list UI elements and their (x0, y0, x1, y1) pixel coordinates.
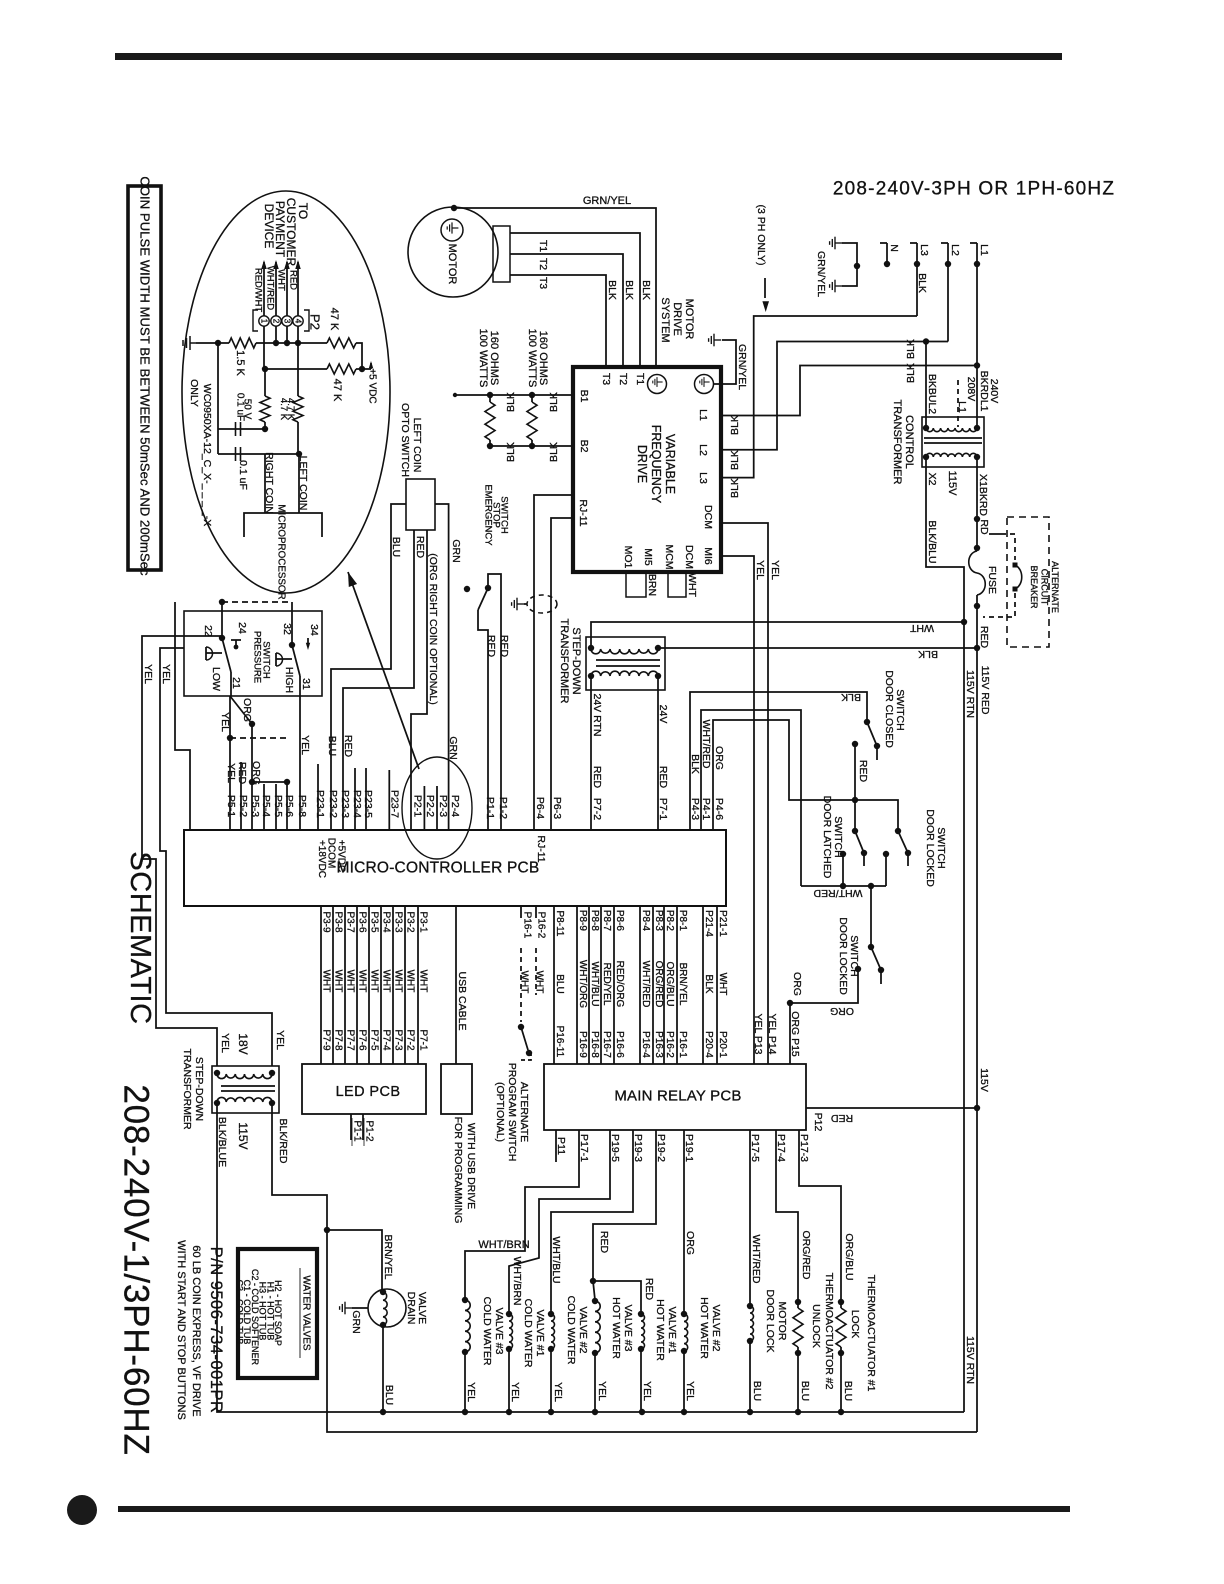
svg-text:P5-8: P5-8 (296, 795, 308, 817)
svg-text:RED/YEL: RED/YEL (601, 963, 612, 1006)
svg-text:P5-5: P5-5 (272, 795, 284, 817)
svg-text:TRANSFORMER: TRANSFORMER (891, 400, 903, 485)
door locked switch 1 blade (898, 831, 908, 853)
contact 32 (289, 642, 295, 648)
resistor 4.7 K left (260, 396, 270, 422)
wire BLU dlm (749, 1341, 751, 1412)
svg-text:GRN/YEL: GRN/YEL (583, 195, 631, 207)
junction brnyel (324, 1227, 330, 1233)
svg-text:FUSE: FUSE (986, 566, 998, 594)
svg-text:P23-2: P23-2 (327, 790, 339, 818)
breaker arc (1015, 565, 1022, 589)
motor ground terminal (441, 219, 463, 241)
svg-text:X1BKRD: X1BKRD (977, 474, 989, 516)
wire P3-3 to LED (392, 906, 394, 1064)
svg-text:HIGH: HIGH (283, 667, 295, 693)
USB drive box (441, 1064, 472, 1114)
junction RTN-BLK join (974, 645, 980, 651)
wire P8-4 to relay (639, 906, 641, 1064)
wire P8-2 to relay (663, 906, 665, 1064)
svg-text:+5 VDC: +5 VDC (367, 368, 378, 403)
T3 primary coil (217, 1074, 272, 1079)
wire P3-8 to LED (332, 906, 334, 1064)
svg-text:WHT: WHT (418, 970, 429, 993)
contact 22 (219, 635, 225, 641)
wire P2-1 down (263, 326, 265, 369)
svg-text:P8-8: P8-8 (589, 910, 600, 932)
svg-text:P3-6: P3-6 (357, 911, 368, 933)
P2 pin group ellipse (402, 757, 472, 859)
svg-text:YEL: YEL (225, 763, 237, 783)
svg-text:P1-2: P1-2 (497, 797, 509, 819)
svg-text:HOT WATER: HOT WATER (610, 1297, 622, 1359)
wire P2-4 down (297, 326, 299, 343)
terminal L2 (941, 242, 948, 244)
dashed spare (230, 737, 287, 739)
wire to door locked switch 1 (855, 800, 898, 831)
svg-text:47 K: 47 K (328, 308, 340, 331)
svg-text:BLK: BLK (505, 442, 517, 462)
junction WHT at RTN rail (961, 619, 967, 625)
svg-text:P19-5: P19-5 (609, 1134, 621, 1162)
junction return bus x465 (462, 1409, 468, 1415)
wire P8-3 to relay (652, 906, 654, 1064)
junction cap1 (262, 426, 268, 432)
junction dashed yel (227, 735, 233, 741)
control transformer primary coil (926, 428, 977, 432)
wire BLU th2 (797, 1353, 799, 1412)
svg-text:THERMOACTUATOR #2: THERMOACTUATOR #2 (823, 1273, 835, 1390)
wire YEL cw1 (508, 1349, 510, 1412)
chassis ground symbol (709, 334, 722, 347)
svg-text:VALVE #1: VALVE #1 (666, 1307, 678, 1354)
svg-text:P23-3: P23-3 (339, 790, 351, 818)
svg-text:CIRCUIT: CIRCUIT (1040, 569, 1050, 606)
svg-text:L2: L2 (697, 444, 709, 456)
svg-text:22: 22 (202, 625, 214, 637)
thermoactuator 1 resistor (838, 1299, 844, 1305)
svg-text:32: 32 (281, 623, 293, 635)
svg-text:VALVE #3: VALVE #3 (622, 1305, 634, 1352)
step-down transformer T2 box (586, 637, 665, 690)
terminal L1 (970, 242, 977, 244)
alternate circuit breaker box (1007, 517, 1049, 647)
svg-text:ONLY: ONLY (188, 379, 200, 407)
svg-text:DOOR LOCKED: DOOR LOCKED (837, 917, 849, 995)
wire P2-2 stub (423, 786, 425, 830)
junction return bus x551 (548, 1409, 554, 1415)
LED PCB box (302, 1064, 426, 1114)
svg-text:P5-3: P5-3 (249, 795, 261, 817)
wire P6-4 (534, 495, 573, 830)
svg-text:WATER VALVES: WATER VALVES (301, 1275, 312, 1351)
wire USB cable (455, 906, 457, 1064)
svg-text:ORG/RED: ORG/RED (800, 1230, 812, 1279)
left coin opto switch box (406, 479, 435, 530)
svg-text:BLK: BLK (841, 691, 861, 703)
svg-text:P16-7: P16-7 (601, 1031, 612, 1058)
T2 primary coil (591, 649, 658, 654)
wire 21 to ORG node (230, 672, 232, 696)
door closed switch blade (867, 722, 877, 746)
svg-text:SWITCH: SWITCH (261, 641, 272, 679)
pressure diaphragm low (206, 647, 213, 660)
connector P2 pin 1 (259, 316, 269, 326)
wire 32 feed (291, 602, 293, 645)
door closed switch out contact (852, 741, 858, 747)
wire P11 stub (555, 1130, 557, 1162)
svg-text:GRN: GRN (447, 736, 459, 759)
svg-text:P17-3: P17-3 (798, 1134, 810, 1162)
wire P8-6 to relay (613, 906, 615, 1064)
svg-text:MICRO-CONTROLLER PCB: MICRO-CONTROLLER PCB (337, 860, 540, 877)
wire P23-7 stub (388, 770, 390, 830)
wire P4-1 WHT/RED (701, 710, 801, 886)
svg-text:WC0950XA-12_C_X-_ _ _ _-X: WC0950XA-12_C_X-_ _ _ _-X (201, 384, 213, 526)
svg-text:ORG: ORG (791, 972, 803, 996)
svg-text:TRANSFORMER: TRANSFORMER (181, 1048, 193, 1130)
svg-text:ORG/BLU: ORG/BLU (664, 961, 675, 1006)
svg-text:WHT/RED: WHT/RED (265, 266, 276, 310)
svg-text:COIN PULSE WIDTH MUST BE BETWE: COIN PULSE WIDTH MUST BE BETWEEN 50mSec … (138, 176, 153, 576)
svg-text:ORG: ORG (250, 761, 262, 785)
motor frame ground dot (451, 205, 457, 211)
hot water valve 2 coil (681, 1311, 687, 1317)
wire L1 to VFD (721, 366, 977, 416)
wire P1-1 stub led (350, 1114, 352, 1140)
arrow 3ph only (764, 278, 766, 298)
svg-text:WHT: WHT (357, 970, 368, 993)
svg-text:P16-6: P16-6 (614, 1031, 625, 1058)
svg-text:P5-4: P5-4 (260, 795, 272, 817)
svg-text:MOTOR: MOTOR (683, 299, 695, 340)
junction B1 R1 (487, 392, 493, 398)
wire ground to node (196, 342, 229, 344)
svg-text:P11: P11 (555, 1137, 567, 1155)
door latched switch blade (855, 831, 864, 853)
svg-text:P23-1: P23-1 (314, 790, 326, 818)
T2 secondary coil (591, 671, 658, 676)
junction L1 tap (974, 362, 980, 368)
svg-text:YEL: YEL (219, 712, 231, 732)
svg-text:MICROPROCESSOR: MICROPROCESSOR (276, 504, 287, 599)
svg-text:WHT/ORG: WHT/ORG (577, 960, 588, 1009)
resistor 47 K upper (327, 338, 356, 348)
control transformer core (924, 437, 982, 439)
wire P17-3 to thermoactuator 1 (799, 1130, 841, 1302)
wire BLU coin (331, 504, 406, 830)
wire P1-2 stub led (362, 1114, 364, 1140)
wire X2 BLK/BLU down (926, 457, 964, 1412)
wire BKBUL2 to transformer (925, 342, 927, 428)
svg-text:SWITCH: SWITCH (935, 827, 947, 868)
wire VFD chassis ground (713, 340, 736, 384)
wire bus to P2 pins (256, 342, 327, 344)
capacitor 0.1 uF 50 V (236, 422, 241, 436)
svg-text:HOT WATER: HOT WATER (654, 1299, 666, 1361)
RJ-11 shield ground (512, 598, 525, 611)
wire P16-2 stub (535, 906, 537, 918)
door locked switch 2 contact (868, 944, 874, 950)
svg-text:DOOR LOCKED: DOOR LOCKED (924, 809, 936, 887)
svg-text:P4-6: P4-6 (713, 798, 725, 820)
svg-text:YEL: YEL (160, 664, 172, 684)
svg-text:WHT: WHT (276, 269, 287, 291)
svg-text:RED/WHT: RED/WHT (253, 268, 264, 313)
wire P8-11 to relay (553, 906, 555, 1064)
svg-text:P16-2: P16-2 (536, 912, 547, 939)
wire L3 feed (916, 264, 918, 316)
dashed 208V tap (957, 380, 959, 427)
svg-text:DCM: DCM (683, 545, 695, 569)
fuse F1 (969, 551, 986, 595)
svg-text:GRN: GRN (450, 539, 462, 562)
svg-text:P8-11: P8-11 (554, 911, 565, 937)
svg-text:UNLOCK: UNLOCK (810, 1304, 822, 1348)
junction return bus x509 (506, 1409, 512, 1415)
T3 secondary coil (217, 1097, 272, 1102)
junction P12 at RED rail (974, 1105, 980, 1111)
svg-text:FOR PROGRAMMING: FOR PROGRAMMING (452, 1117, 464, 1224)
svg-text:47 K: 47 K (331, 379, 343, 402)
svg-text:COLD WATER: COLD WATER (522, 1299, 534, 1368)
svg-text:LEFT COIN: LEFT COIN (297, 456, 309, 511)
svg-text:VALVE #2: VALVE #2 (577, 1307, 589, 1354)
breaker dashed feed bottom (983, 593, 1015, 617)
svg-text:60 LB COIN EXPRESS, VF DRIVE: 60 LB COIN EXPRESS, VF DRIVE (190, 1245, 202, 1416)
svg-text:RED: RED (498, 635, 510, 658)
wire BLK/RED bus (272, 1103, 977, 1432)
junction P2-3 (284, 340, 290, 346)
step-down transformer T3 box (212, 1066, 279, 1113)
emergency stop blade (478, 588, 488, 610)
svg-text:208-240V-3PH OR 1PH-60HZ: 208-240V-3PH OR 1PH-60HZ (833, 179, 1115, 200)
ground in payment device (183, 336, 196, 350)
svg-text:0.1 uF: 0.1 uF (237, 460, 249, 490)
svg-text:WHT: WHT (686, 573, 698, 597)
svg-text:YEL: YEL (754, 560, 766, 580)
svg-text:P16-1: P16-1 (522, 912, 533, 939)
junction P2-4 (295, 340, 301, 346)
junction B2 R2 (529, 443, 535, 449)
wire P15 ORG (789, 1003, 791, 1064)
svg-text:BLK: BLK (905, 363, 917, 383)
svg-text:BLK/BLU: BLK/BLU (926, 520, 938, 563)
svg-text:L2: L2 (949, 244, 961, 256)
terminal N (880, 242, 887, 244)
svg-text:RJ-11: RJ-11 (535, 835, 547, 862)
svg-text:BLK/RED: BLK/RED (277, 1119, 289, 1164)
svg-text:P7-2: P7-2 (591, 798, 603, 820)
wire P4-6 ORG (713, 720, 855, 830)
hot water valve 3 coil (592, 1298, 598, 1304)
end dot B1 (453, 393, 457, 397)
switch blade high (292, 645, 300, 676)
svg-text:YEL: YEL (142, 664, 154, 684)
svg-text:MI5: MI5 (642, 548, 654, 566)
svg-text:GRN: GRN (350, 1310, 362, 1333)
svg-text:YEL: YEL (641, 1381, 653, 1401)
svg-text:ORG/BLU: ORG/BLU (843, 1233, 855, 1280)
control transformer secondary coil (926, 453, 977, 457)
jumper plug BRN (626, 572, 646, 597)
wire P5-5 stub (275, 784, 277, 830)
connector P2 pin 2 (271, 316, 281, 326)
svg-text:DCM: DCM (702, 505, 714, 529)
svg-text:T3: T3 (537, 277, 549, 289)
svg-text:WHT: WHT (333, 970, 344, 993)
motor M1 (408, 207, 498, 297)
door latched out contact (840, 851, 846, 857)
junction B2 R1 (487, 443, 493, 449)
svg-text:P8-7: P8-7 (601, 910, 612, 932)
svg-text:P2-1: P2-1 (412, 795, 424, 817)
svg-text:T1: T1 (634, 373, 646, 385)
cold water valve 2 coil (548, 1311, 554, 1317)
svg-text:ALTERNATE: ALTERNATE (518, 1082, 530, 1142)
resistor 47 K lower (327, 364, 356, 374)
svg-text:P16-8: P16-8 (589, 1031, 600, 1058)
svg-text:BLK: BLK (548, 442, 560, 462)
svg-text:P3-2: P3-2 (405, 911, 416, 933)
svg-text:BRN/YEL: BRN/YEL (382, 1235, 394, 1280)
drain valve circle (368, 1289, 406, 1327)
svg-text:24V: 24V (657, 705, 669, 724)
svg-text:SWITCH: SWITCH (499, 496, 510, 534)
svg-text:VALVE #1: VALVE #1 (534, 1310, 546, 1357)
svg-text:L3: L3 (697, 472, 709, 484)
svg-text:YEL: YEL (769, 560, 781, 580)
svg-text:WHT: WHT (369, 970, 380, 993)
wire to +5 VDC (362, 368, 371, 370)
svg-text:P2-3: P2-3 (437, 795, 449, 817)
wire P19-2 to hot water valve 3 (593, 1130, 656, 1300)
svg-text:P17-5: P17-5 (749, 1134, 761, 1162)
svg-text:24: 24 (236, 622, 248, 634)
svg-text:RED: RED (643, 1278, 655, 1301)
svg-text:P2-4: P2-4 (449, 795, 461, 817)
svg-text:RED/ORG: RED/ORG (614, 961, 625, 1008)
svg-text:C3 - COLD TUB: C3 - COLD TUB (235, 1280, 245, 1345)
svg-text:P3-8: P3-8 (333, 911, 344, 933)
emergency stop contact (485, 585, 491, 591)
svg-text:P16-3: P16-3 (653, 1031, 664, 1058)
arrow P2-3 to device (286, 262, 288, 316)
svg-text:P7-9: P7-9 (321, 1029, 332, 1051)
control transformer T1 box (922, 417, 984, 467)
cold water valve 3 coil (462, 1297, 468, 1303)
svg-text:YEL: YEL (465, 1382, 477, 1402)
svg-text:P1-2: P1-2 (364, 1120, 375, 1142)
svg-text:COLD WATER: COLD WATER (481, 1297, 493, 1366)
wire branch to hot water valve 1 (593, 1281, 641, 1314)
svg-text:+18VDC: +18VDC (316, 840, 327, 878)
wire P5-6 down (286, 782, 288, 830)
junction BKBUL2 (923, 338, 929, 344)
wire BLK 115V to transformer (658, 647, 977, 649)
svg-text:3: 3 (283, 319, 292, 324)
svg-text:RIGHT COIN: RIGHT COIN (263, 452, 275, 514)
resistor 1.5 K (229, 338, 256, 348)
wire YEL cw3 (464, 1352, 466, 1412)
dash to breaker RD (989, 533, 1001, 535)
svg-text:P7-7: P7-7 (345, 1029, 356, 1051)
ground pair GRN/YEL entry (830, 237, 843, 250)
T2 core (596, 659, 660, 661)
svg-text:N: N (888, 244, 900, 252)
wire WHT/RED bottom (801, 885, 886, 887)
braking resistor R-B1 160 OHMS (489, 395, 491, 402)
svg-text:WITH USB DRIVE: WITH USB DRIVE (465, 1123, 477, 1209)
svg-text:BLU: BLU (751, 1381, 763, 1401)
svg-text:BLK: BLK (505, 392, 517, 412)
alt program switch contact b (526, 1050, 532, 1056)
svg-text:P16-9: P16-9 (577, 1031, 588, 1058)
wire YEL hw1 (640, 1349, 642, 1412)
arrow P2-1 to device (263, 262, 265, 316)
junction fuse bottom (974, 603, 980, 609)
junction return bus x684 (681, 1409, 687, 1415)
svg-text:DEVICE: DEVICE (262, 204, 276, 249)
svg-text:MOTOR: MOTOR (446, 244, 458, 285)
wire BLU th1 (840, 1353, 842, 1412)
wire B2 (490, 445, 573, 447)
junction return bus x383 (380, 1409, 386, 1415)
svg-text:WHT/RED: WHT/RED (813, 887, 862, 899)
svg-text:LOCK: LOCK (849, 1310, 861, 1339)
VFD ground lug right (695, 375, 714, 394)
alt program switch foot (521, 1053, 531, 1060)
svg-text:P17-4: P17-4 (775, 1134, 787, 1162)
svg-text:LOW: LOW (210, 667, 222, 691)
svg-text:P19-1: P19-1 (683, 1134, 695, 1162)
svg-text:P3-4: P3-4 (381, 911, 392, 933)
note box: coin pulse width (128, 186, 161, 570)
wire P21-1 to relay (716, 906, 718, 1064)
wire L2 to VFD (721, 342, 948, 450)
wire GRN coin (435, 504, 449, 830)
svg-text:YEL: YEL (684, 1381, 696, 1401)
svg-text:P5-2: P5-2 (237, 795, 249, 817)
svg-text:VALVE: VALVE (416, 1292, 428, 1324)
svg-text:RED: RED (236, 762, 248, 785)
wire ORG right coin optional (411, 530, 427, 830)
svg-text:MAIN RELAY PCB: MAIN RELAY PCB (614, 1088, 741, 1105)
svg-text:STEP-DOWN: STEP-DOWN (570, 627, 582, 694)
svg-text:P8-6: P8-6 (614, 910, 625, 932)
wire P23-4 stub (354, 768, 356, 830)
svg-text:DOOR LOCK: DOOR LOCK (764, 1289, 776, 1352)
svg-text:115V RED: 115V RED (979, 666, 991, 715)
emergency stop open contact (464, 586, 470, 592)
svg-text:SWITCH: SWITCH (848, 935, 860, 976)
wire P5-4 stub (263, 784, 265, 830)
svg-text:YEL: YEL (274, 1030, 286, 1050)
svg-text:P23-5: P23-5 (362, 790, 374, 818)
svg-text:208-240V-1/3PH-60HZ: 208-240V-1/3PH-60HZ (117, 1084, 156, 1455)
svg-text:P8-9: P8-9 (577, 910, 588, 932)
svg-text:YEL P13: YEL P13 (752, 1013, 764, 1054)
wire DCM to P14 (721, 523, 768, 1064)
svg-text:(OPTIONAL): (OPTIONAL) (494, 1082, 506, 1142)
junction ORG low (249, 779, 255, 785)
main relay pcb box (544, 1064, 806, 1130)
svg-text:WHT/RED: WHT/RED (750, 1235, 762, 1284)
svg-text:WITH START AND STOP BUTTONS: WITH START AND STOP BUTTONS (175, 1240, 187, 1420)
svg-text:4: 4 (294, 319, 303, 324)
RJ-11 cable oval (527, 595, 557, 613)
svg-text:MO1: MO1 (622, 546, 634, 569)
